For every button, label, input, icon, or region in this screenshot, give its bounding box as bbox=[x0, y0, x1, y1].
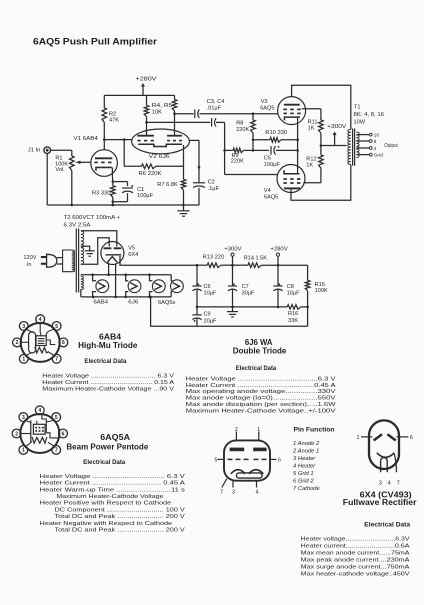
svg-text:7: 7 bbox=[55, 357, 58, 363]
svg-text:7: 7 bbox=[55, 448, 58, 454]
svg-text:Total DC and Peak ............: Total DC and Peak ......................… bbox=[55, 514, 186, 520]
svg-text:Max mean anode current......75: Max mean anode current......75mA bbox=[301, 550, 410, 556]
svg-text:6: 6 bbox=[278, 457, 281, 463]
svg-text:Heater Voltage ...............: Heater Voltage .........................… bbox=[42, 373, 174, 379]
svg-text:R8: R8 bbox=[236, 121, 243, 127]
wire C4 to V4 grid bbox=[223, 122, 277, 174]
label 6X4 Fullwave Rectifier bbox=[343, 490, 417, 528]
transformer T1 bbox=[348, 105, 384, 166]
svg-text:1: 1 bbox=[22, 448, 25, 454]
svg-text:4: 4 bbox=[256, 490, 259, 496]
svg-text:Max anode dissipation (per sec: Max anode dissipation (per section).....… bbox=[186, 402, 337, 408]
svg-text:1 Anode 2: 1 Anode 2 bbox=[293, 441, 320, 447]
svg-text:2 Anode 1: 2 Anode 1 bbox=[292, 449, 319, 455]
svg-text:2: 2 bbox=[235, 427, 238, 433]
svg-text:6 Grid 2: 6 Grid 2 bbox=[293, 479, 314, 485]
svg-text:3: 3 bbox=[232, 490, 235, 496]
svg-text:Max peak anode current....230m: Max peak anode current....230mA bbox=[301, 557, 410, 563]
node output taps bbox=[356, 133, 398, 159]
ground HV center tap bbox=[81, 246, 95, 256]
svg-text:33K: 33K bbox=[288, 318, 298, 324]
wire V4 plate loop bbox=[291, 165, 351, 201]
svg-text:120V: 120V bbox=[23, 255, 36, 261]
svg-text:C6: C6 bbox=[204, 284, 211, 290]
svg-text:3 Heater: 3 Heater bbox=[293, 456, 316, 462]
svg-text:Fullwave Rectifier: Fullwave Rectifier bbox=[343, 498, 417, 507]
svg-text:6AQ5A: 6AQ5A bbox=[100, 433, 130, 442]
resistor R10 bbox=[252, 130, 298, 142]
wire middle bus bbox=[197, 306, 287, 308]
svg-text:1K: 1K bbox=[308, 126, 315, 132]
heater 6AQ5 pair bbox=[150, 275, 184, 307]
svg-text:C8: C8 bbox=[287, 284, 294, 290]
plug 120V input bbox=[23, 254, 56, 268]
tube V1 6AB4 bbox=[73, 136, 117, 177]
svg-text:10K: 10K bbox=[152, 110, 162, 116]
svg-text:V3: V3 bbox=[261, 99, 268, 105]
wire top rail bbox=[104, 94, 174, 96]
resistor R15 bbox=[305, 265, 328, 326]
node +280V terminal bbox=[270, 246, 288, 266]
svg-text:Heater Current ...............: Heater Current .........................… bbox=[42, 380, 174, 386]
svg-text:R6 220K: R6 220K bbox=[139, 171, 162, 177]
svg-text:1K: 1K bbox=[306, 163, 313, 169]
svg-text:6X4: 6X4 bbox=[128, 252, 138, 258]
resistor R16 bbox=[287, 305, 309, 324]
text 6J6 electrical data bbox=[186, 376, 337, 414]
svg-text:7: 7 bbox=[220, 490, 223, 496]
svg-text:Max surge anode current...750m: Max surge anode current...750mA bbox=[301, 564, 410, 570]
svg-text:16: 16 bbox=[374, 133, 380, 139]
svg-text:In: In bbox=[27, 262, 32, 268]
svg-text:V1 6AB4: V1 6AB4 bbox=[73, 136, 98, 142]
svg-text:Max anode voltage (Ia=0)......: Max anode voltage (Ia=0)................… bbox=[186, 396, 336, 402]
label 6AB4 High-Mu Triode bbox=[78, 333, 138, 366]
tube V2 6J6 bbox=[132, 129, 190, 160]
svg-text:.01µF: .01µF bbox=[207, 105, 222, 111]
svg-text:C9: C9 bbox=[204, 312, 211, 318]
tube V5 6X4 bbox=[101, 242, 138, 265]
svg-text:10W: 10W bbox=[354, 119, 366, 125]
capacitor C7 bbox=[228, 264, 255, 307]
svg-text:+280V: +280V bbox=[270, 246, 288, 252]
wire V5 heater pins bbox=[107, 263, 117, 299]
svg-text:C3, C4: C3, C4 bbox=[207, 99, 225, 105]
svg-text:Maximum Heater-Cathode Voltage: Maximum Heater-Cathode Voltage ...90 V bbox=[42, 386, 174, 392]
wire V5 cathode to B+ rail bbox=[120, 256, 197, 265]
svg-text:8: 8 bbox=[374, 139, 377, 145]
svg-text:Electrical Data: Electrical Data bbox=[84, 358, 127, 365]
svg-text:6AQ5: 6AQ5 bbox=[264, 195, 278, 201]
node V1 plate junction bbox=[103, 138, 106, 141]
svg-text:7: 7 bbox=[397, 480, 400, 486]
wire bottom rail bbox=[151, 297, 308, 326]
svg-text:1: 1 bbox=[22, 357, 25, 363]
svg-text:+300V: +300V bbox=[224, 246, 242, 252]
svg-text:C1: C1 bbox=[137, 187, 144, 193]
node +280V supply arrow bbox=[136, 77, 157, 96]
capacitor C8 bbox=[273, 265, 300, 308]
svg-text:4: 4 bbox=[38, 408, 41, 414]
svg-text:Heater Positive with Respect t: Heater Positive with Respect to Cathode bbox=[40, 501, 172, 507]
socket 6AB4 base diagram bbox=[13, 315, 68, 363]
resistor R13 bbox=[197, 255, 233, 268]
text 6X4 electrical data bbox=[301, 536, 410, 577]
svg-text:4: 4 bbox=[374, 146, 377, 152]
wire V1 plate to V2 grid bbox=[104, 138, 132, 150]
svg-text:100µF: 100µF bbox=[137, 193, 154, 199]
svg-text:Heater Voltage ...............: Heater Voltage .........................… bbox=[40, 474, 185, 480]
capacitor C5 bbox=[253, 146, 298, 168]
capacitor C3 bbox=[175, 99, 278, 118]
svg-text:C5: C5 bbox=[264, 156, 271, 162]
svg-text:R12: R12 bbox=[306, 156, 316, 162]
wire ground bus bbox=[47, 204, 199, 207]
svg-text:Double Triode: Double Triode bbox=[233, 346, 287, 355]
ground filter bbox=[227, 306, 238, 317]
svg-text:3: 3 bbox=[22, 324, 25, 330]
node +300V arrow at output transformer bbox=[321, 124, 347, 146]
wire HV secondary to V5 plates bbox=[81, 231, 117, 264]
svg-text:Electrical Data: Electrical Data bbox=[364, 522, 410, 529]
ground main bbox=[178, 205, 190, 216]
resistor R11 bbox=[302, 109, 323, 146]
svg-text:R16: R16 bbox=[288, 311, 298, 317]
svg-text:R3 330: R3 330 bbox=[92, 191, 111, 197]
svg-text:47K: 47K bbox=[109, 118, 119, 124]
svg-text:220K: 220K bbox=[231, 159, 244, 165]
svg-text:Total DC and Peak ............: Total DC and Peak ......................… bbox=[55, 528, 186, 534]
tube V4 6AQ5 bbox=[264, 165, 305, 201]
label T2 bbox=[64, 215, 121, 228]
svg-text:Heater Warm-up Time ..........: Heater Warm-up Time ....................… bbox=[40, 487, 185, 493]
tube V3 6AQ5 bbox=[260, 97, 305, 125]
capacitor C9 bbox=[192, 306, 217, 327]
svg-text:5 Grid 1: 5 Grid 1 bbox=[293, 471, 314, 477]
svg-text:6AQ5 Push Pull Amplifier: 6AQ5 Push Pull Amplifier bbox=[33, 37, 157, 48]
svg-text:DC Component .................: DC Component ...........................… bbox=[55, 507, 186, 513]
socket 6AQ5A base diagram bbox=[12, 406, 67, 454]
svg-text:Heater Current ...............: Heater Current .........................… bbox=[40, 481, 185, 487]
svg-text:6AB4: 6AB4 bbox=[94, 299, 109, 305]
svg-text:Output: Output bbox=[384, 143, 398, 149]
svg-text:J1 In: J1 In bbox=[28, 148, 41, 154]
svg-text:R7 6.8K: R7 6.8K bbox=[157, 182, 178, 188]
svg-text:V4: V4 bbox=[264, 188, 271, 194]
svg-text:C7: C7 bbox=[242, 284, 249, 290]
svg-text:Heater voltage................: Heater voltage..........................… bbox=[301, 536, 410, 542]
svg-text:V5: V5 bbox=[128, 246, 135, 252]
wire V3 plate loop bbox=[292, 85, 351, 129]
svg-text:R15: R15 bbox=[315, 282, 325, 288]
svg-text:V2 6J6: V2 6J6 bbox=[149, 154, 170, 160]
svg-text:220K: 220K bbox=[236, 127, 249, 133]
resistor R3 bbox=[92, 176, 115, 205]
svg-text:6: 6 bbox=[62, 340, 65, 346]
svg-text:Maximum Heater-Cathode Voltage: Maximum Heater-Cathode Voltage bbox=[56, 494, 163, 500]
svg-text:10µF: 10µF bbox=[204, 291, 217, 297]
label 6J6 WA Double Triode bbox=[233, 338, 287, 372]
svg-text:6: 6 bbox=[62, 431, 65, 437]
svg-text:R11: R11 bbox=[308, 119, 318, 125]
wire V3 V4 cathode line bbox=[296, 122, 299, 174]
text 6AQ5A electrical data bbox=[40, 474, 185, 534]
svg-text:R4, R5: R4, R5 bbox=[152, 103, 173, 109]
resistor R2 bbox=[102, 95, 119, 139]
svg-text:High-Mu Triode: High-Mu Triode bbox=[78, 341, 138, 350]
svg-text:T1: T1 bbox=[354, 105, 361, 111]
svg-text:Beam Power Pentode: Beam Power Pentode bbox=[66, 442, 149, 451]
svg-text:100K: 100K bbox=[315, 288, 328, 294]
heater 6J6 bbox=[126, 275, 141, 306]
resistor R14 bbox=[233, 256, 308, 268]
transformer T2 bbox=[57, 229, 84, 293]
svg-text:6AQ5: 6AQ5 bbox=[260, 105, 274, 111]
resistor R7 bbox=[157, 145, 186, 205]
svg-text:Max operating anode voltage...: Max operating anode voltage.............… bbox=[186, 389, 336, 395]
resistor R4 bbox=[144, 95, 149, 135]
svg-text:Vol.: Vol. bbox=[55, 167, 65, 173]
svg-text:+280V: +280V bbox=[136, 77, 157, 83]
label pin function bbox=[292, 427, 335, 493]
svg-text:6: 6 bbox=[410, 435, 413, 441]
svg-text:R14 1.5K: R14 1.5K bbox=[244, 256, 267, 262]
svg-text:T2 600VCT 100mA +: T2 600VCT 100mA + bbox=[64, 215, 121, 221]
svg-text:10µF: 10µF bbox=[287, 291, 300, 297]
svg-text:7 Cathode: 7 Cathode bbox=[293, 486, 321, 492]
svg-text:2: 2 bbox=[15, 431, 18, 437]
svg-text:4: 4 bbox=[388, 480, 391, 486]
svg-text:3: 3 bbox=[379, 480, 382, 486]
svg-text:Heater Current ...............: Heater Current .........................… bbox=[186, 383, 336, 389]
resistor R1 volume pot bbox=[55, 150, 91, 205]
text 6AB4 electrical data bbox=[42, 373, 174, 392]
svg-text:1: 1 bbox=[257, 427, 260, 433]
svg-text:1: 1 bbox=[357, 435, 360, 441]
svg-text:Heater current................: Heater current.........................0… bbox=[301, 543, 410, 549]
svg-text:R13 220: R13 220 bbox=[203, 255, 225, 261]
svg-text:Max heater-cathode voltage..45: Max heater-cathode voltage..450V bbox=[301, 571, 410, 577]
svg-text:2: 2 bbox=[16, 340, 19, 346]
label 6AQ5A Beam Power Pentode bbox=[66, 433, 149, 466]
wire heater top bus bbox=[81, 273, 171, 276]
capacitor C1 bbox=[113, 182, 154, 202]
jack J1 input bbox=[28, 147, 72, 205]
svg-text:C2: C2 bbox=[208, 180, 215, 186]
svg-text:3: 3 bbox=[22, 415, 25, 421]
resistor R8 bbox=[236, 112, 255, 139]
svg-text:.1µF: .1µF bbox=[208, 186, 220, 192]
svg-text:R10 330: R10 330 bbox=[265, 130, 287, 136]
capacitor C4 bbox=[147, 118, 225, 127]
node +300V terminal bbox=[224, 246, 242, 266]
socket 6X4 base diagram bbox=[357, 420, 413, 486]
socket 6J6 base diagram bbox=[215, 427, 281, 496]
svg-text:Electrical Data: Electrical Data bbox=[83, 459, 126, 466]
capacitor C2 bbox=[189, 140, 219, 205]
title bbox=[33, 37, 157, 48]
svg-text:6J6: 6J6 bbox=[128, 299, 138, 305]
svg-text:Gnd: Gnd bbox=[374, 153, 384, 159]
capacitor C6 bbox=[192, 264, 217, 307]
resistor R9 bbox=[225, 140, 255, 165]
heater 6AB4 bbox=[93, 275, 109, 306]
svg-text:4: 4 bbox=[39, 317, 42, 323]
svg-text:Heater Negative with Respect t: Heater Negative with Respect to Cathode bbox=[40, 521, 172, 527]
resistor R5 bbox=[152, 95, 177, 135]
resistor R6 bbox=[124, 140, 183, 177]
svg-text:6AQ5s: 6AQ5s bbox=[158, 300, 176, 306]
svg-text:5: 5 bbox=[55, 415, 58, 421]
svg-text:R2: R2 bbox=[109, 112, 116, 118]
svg-text:Electrical Data: Electrical Data bbox=[236, 365, 277, 372]
wire heater bottom bus bbox=[81, 290, 171, 299]
svg-text:30µF: 30µF bbox=[242, 291, 255, 297]
svg-text:6.3V 2.5A: 6.3V 2.5A bbox=[64, 222, 91, 228]
svg-text:100µF: 100µF bbox=[264, 162, 281, 168]
resistor R12 bbox=[303, 144, 323, 183]
svg-text:Maximum Heater-Cathode Voltage: Maximum Heater-Cathode Voltage..+/-100V bbox=[186, 408, 336, 414]
svg-text:20µF: 20µF bbox=[204, 318, 217, 324]
svg-text:+300V: +300V bbox=[327, 124, 346, 130]
svg-text:Heater Voltage ...............: Heater Voltage .........................… bbox=[186, 376, 336, 382]
svg-text:5: 5 bbox=[55, 324, 58, 330]
svg-text:8K: 4, 8, 16: 8K: 4, 8, 16 bbox=[354, 112, 385, 118]
svg-text:Pin Function: Pin Function bbox=[294, 427, 335, 434]
svg-text:5: 5 bbox=[215, 457, 218, 463]
svg-text:4 Heater: 4 Heater bbox=[293, 464, 316, 470]
